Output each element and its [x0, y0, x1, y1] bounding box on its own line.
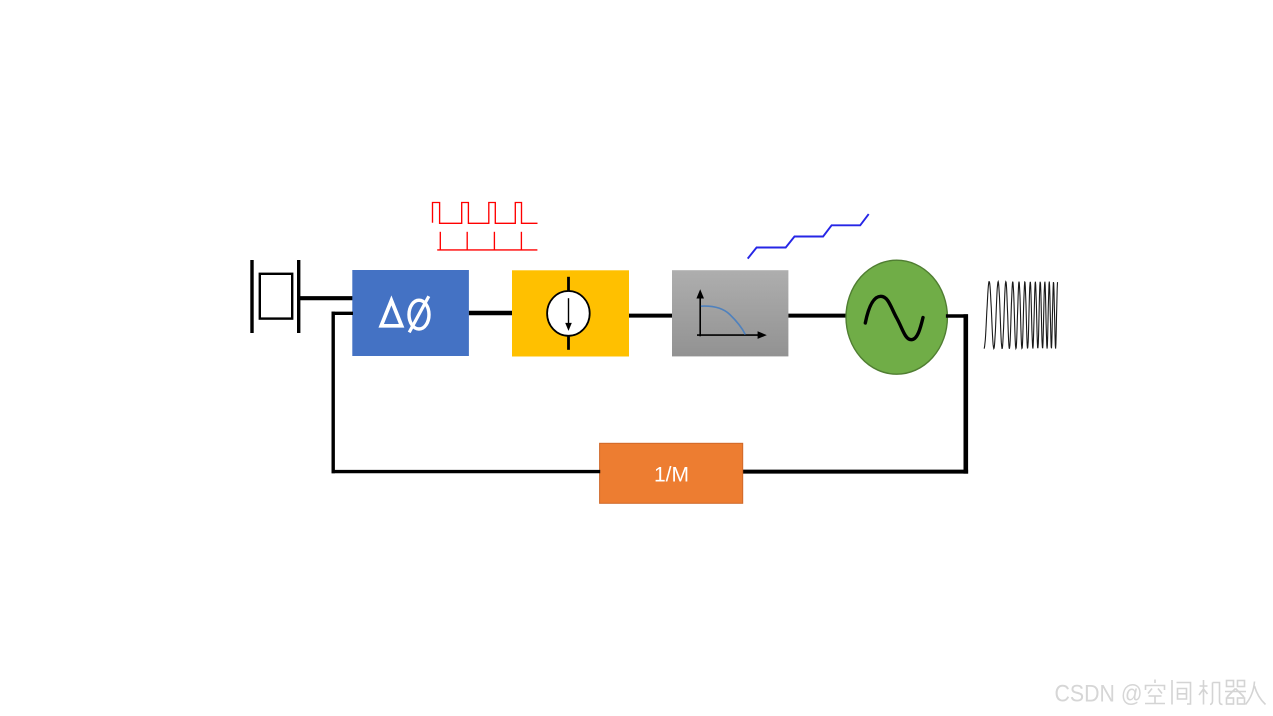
feedback wire right vertical	[963, 314, 968, 473]
charge pump block U2	[512, 270, 629, 356]
wire crystal to phase detector	[299, 296, 353, 300]
loop filter axes	[696, 289, 766, 339]
VCO sine symbol	[865, 296, 923, 339]
svg-text:1/M: 1/M	[654, 463, 689, 486]
divider block 1/M	[600, 443, 743, 503]
label delta-phi	[381, 296, 429, 332]
loop filter block U3	[672, 270, 788, 356]
wire VCO output to corner	[946, 314, 968, 318]
feedback wire left vertical	[332, 312, 335, 474]
staircase tuning voltage	[748, 214, 869, 259]
VCO oscillator U4	[846, 260, 947, 374]
watermark chinese characters	[1145, 680, 1266, 705]
output chirp waveform	[984, 282, 1058, 349]
svg-text:CSDN @: CSDN @	[1055, 681, 1143, 708]
feedback wire stub into phase detector	[332, 312, 354, 315]
current source symbol	[547, 277, 590, 350]
wire charge pump to loop filter	[629, 314, 673, 318]
feedback wire bottom left	[332, 470, 601, 473]
loop filter response curve	[701, 306, 745, 334]
crystal X1	[252, 260, 299, 333]
wire loop filter to VCO	[788, 314, 848, 318]
wire phase detector to charge pump	[469, 311, 513, 316]
divided impulse train	[437, 232, 537, 250]
feedback wire bottom right	[742, 470, 968, 474]
reference square wave	[433, 203, 538, 224]
phase detector block U1	[352, 270, 469, 356]
